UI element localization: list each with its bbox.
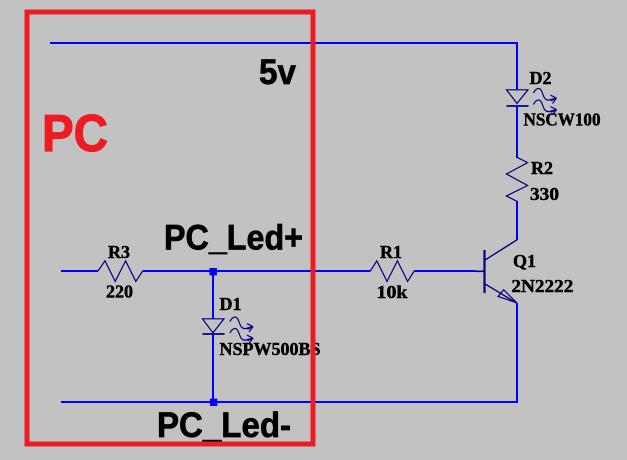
resistor R1 <box>370 261 414 282</box>
svg-text:R3: R3 <box>108 242 130 262</box>
svg-text:220: 220 <box>106 282 133 302</box>
wire: D1 anode drop <box>212 271 214 319</box>
wire: Q1 emitter down <box>516 303 518 403</box>
diode D1 (LED NSPW500BS) <box>203 317 254 344</box>
wire: middle rail from R3 to R1 <box>143 270 371 272</box>
transistor Q1 (NPN 2N2222) <box>476 240 518 303</box>
wire: D1 cathode to bottom rail <box>212 334 214 402</box>
svg-text:PC_Led-: PC_Led- <box>157 406 291 445</box>
svg-text:NSPW500BS: NSPW500BS <box>220 339 321 359</box>
resistor R2 <box>506 157 527 201</box>
junction node PC_Led+ <box>210 268 217 275</box>
diode D2 (LED NSCW100) <box>507 88 557 115</box>
svg-text:330: 330 <box>530 184 559 204</box>
svg-text:D2: D2 <box>530 68 552 88</box>
wire: D2 cathode to R2 <box>516 106 518 158</box>
wire: R2 to Q1 collector <box>516 201 518 240</box>
svg-text:Q1: Q1 <box>513 251 536 271</box>
svg-text:PC: PC <box>42 105 108 163</box>
svg-text:R2: R2 <box>531 158 553 178</box>
resistor R3 <box>98 261 143 282</box>
PC enclosure box (red annotation) <box>27 12 313 444</box>
svg-text:R1: R1 <box>380 242 402 262</box>
wire: bottom rail PC_Led- <box>61 401 518 403</box>
svg-text:5v: 5v <box>259 53 297 92</box>
wire: middle rail left segment <box>61 270 98 272</box>
junction node PC_Led- <box>210 399 217 406</box>
wire: 5v top rail <box>50 42 517 44</box>
wire: R1 to Q1 base <box>414 270 475 272</box>
svg-text:D1: D1 <box>220 294 242 314</box>
wire: collector rail top (5v to D2 anode) <box>516 42 518 90</box>
svg-text:NSCW100: NSCW100 <box>524 110 601 130</box>
svg-text:PC_Led+: PC_Led+ <box>164 219 303 258</box>
svg-text:10k: 10k <box>377 282 408 302</box>
svg-text:2N2222: 2N2222 <box>511 276 573 296</box>
